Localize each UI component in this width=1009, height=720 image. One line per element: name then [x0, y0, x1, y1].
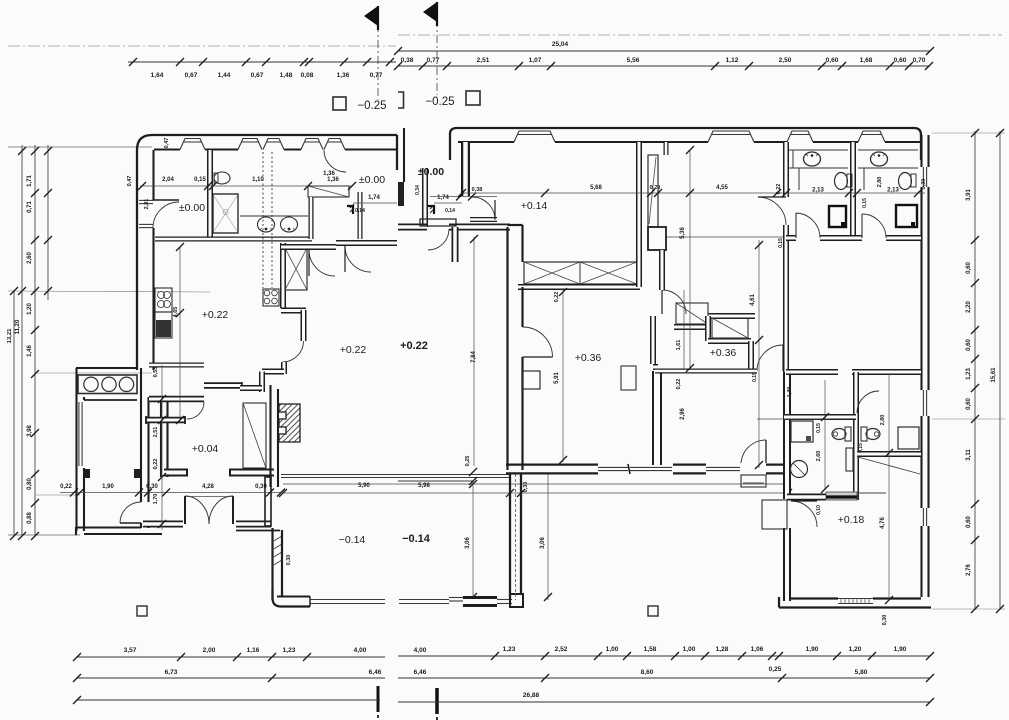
svg-text:1,20: 1,20: [27, 303, 33, 315]
svg-text:5,36: 5,36: [680, 227, 686, 239]
svg-text:5,91: 5,91: [554, 372, 560, 384]
svg-text:0,71: 0,71: [27, 201, 33, 213]
svg-text:0,30: 0,30: [255, 484, 267, 490]
svg-text:−0.14: −0.14: [339, 534, 366, 546]
svg-text:0,60: 0,60: [966, 398, 972, 410]
svg-text:+0.04: +0.04: [192, 443, 219, 455]
svg-text:8,60: 8,60: [641, 669, 654, 676]
svg-text:3,11: 3,11: [966, 449, 972, 461]
svg-text:0,25: 0,25: [465, 456, 471, 467]
svg-text:0,30: 0,30: [882, 615, 888, 626]
svg-text:0,70: 0,70: [913, 57, 926, 64]
svg-text:1,07: 1,07: [529, 57, 542, 64]
svg-text:1,00: 1,00: [683, 646, 696, 653]
svg-text:+0.36: +0.36: [575, 352, 602, 364]
svg-text:0,53: 0,53: [153, 367, 159, 378]
svg-text:0,47: 0,47: [164, 138, 170, 149]
svg-text:3,57: 3,57: [124, 647, 137, 654]
svg-text:0,22: 0,22: [676, 379, 682, 390]
svg-text:2,13: 2,13: [812, 188, 824, 194]
svg-text:0,38: 0,38: [472, 187, 483, 193]
svg-text:5,98: 5,98: [418, 483, 430, 489]
svg-text:3,98: 3,98: [27, 425, 33, 437]
svg-text:1,74: 1,74: [368, 195, 380, 201]
svg-text:1,71: 1,71: [27, 175, 33, 187]
svg-text:1,10: 1,10: [252, 177, 264, 183]
svg-text:1,06: 1,06: [751, 646, 764, 653]
svg-text:2,00: 2,00: [203, 647, 216, 654]
svg-text:1,00: 1,00: [606, 646, 619, 653]
svg-text:0,60: 0,60: [966, 262, 972, 274]
svg-text:1,90: 1,90: [806, 646, 819, 653]
svg-text:1,70: 1,70: [153, 494, 159, 505]
svg-text:1,74: 1,74: [437, 195, 449, 201]
svg-text:0,30: 0,30: [921, 179, 927, 190]
svg-text:1,68: 1,68: [860, 57, 873, 64]
svg-text:0,22: 0,22: [554, 292, 560, 303]
svg-text:2,04: 2,04: [162, 177, 174, 183]
svg-text:0,30: 0,30: [523, 482, 529, 493]
svg-text:0,15: 0,15: [862, 198, 868, 208]
svg-text:2,96: 2,96: [680, 408, 686, 420]
svg-text:3,06: 3,06: [540, 537, 546, 549]
svg-text:+0.18: +0.18: [838, 514, 865, 526]
svg-text:0,60: 0,60: [966, 339, 972, 351]
svg-text:0,15: 0,15: [858, 443, 864, 453]
svg-text:0,15: 0,15: [778, 238, 784, 248]
svg-text:1,40: 1,40: [787, 387, 793, 398]
svg-text:+0.22: +0.22: [400, 340, 428, 352]
svg-text:2,60: 2,60: [27, 252, 33, 264]
svg-text:5,80: 5,80: [855, 669, 868, 676]
svg-text:2,51: 2,51: [477, 57, 490, 64]
svg-text:0,22: 0,22: [776, 184, 782, 195]
svg-text:25,04: 25,04: [552, 41, 569, 48]
svg-text:0,67: 0,67: [251, 72, 264, 79]
svg-text:0,10: 0,10: [816, 505, 822, 515]
svg-text:3,06: 3,06: [465, 537, 471, 549]
svg-text:0,80: 0,80: [27, 478, 33, 490]
svg-text:4,76: 4,76: [880, 517, 886, 529]
svg-text:1,90: 1,90: [894, 646, 907, 653]
svg-text:0,08: 0,08: [301, 72, 314, 79]
svg-text:0,67: 0,67: [185, 72, 198, 79]
svg-text:7,84: 7,84: [471, 351, 477, 363]
svg-text:6,46: 6,46: [414, 669, 427, 676]
svg-text:4,28: 4,28: [202, 484, 214, 490]
svg-text:2,80: 2,80: [880, 415, 886, 426]
svg-text:0,15: 0,15: [752, 372, 758, 382]
svg-text:2,80: 2,80: [877, 177, 883, 188]
svg-text:0,38: 0,38: [401, 57, 414, 64]
svg-text:±0.00: ±0.00: [179, 202, 205, 214]
svg-text:2,52: 2,52: [555, 646, 568, 653]
svg-text:0,88: 0,88: [27, 512, 33, 524]
svg-text:2,51: 2,51: [153, 427, 159, 438]
svg-text:−0.25: −0.25: [357, 100, 386, 112]
svg-text:±0.00: ±0.00: [359, 174, 385, 186]
svg-text:5,68: 5,68: [590, 185, 602, 191]
svg-text:1,36: 1,36: [337, 72, 350, 79]
svg-text:2,81: 2,81: [144, 199, 150, 210]
svg-text:2,20: 2,20: [966, 301, 972, 313]
svg-text:1,36: 1,36: [323, 171, 335, 177]
svg-text:0,25: 0,25: [769, 666, 782, 673]
svg-text:1,23: 1,23: [966, 368, 972, 380]
svg-text:1,48: 1,48: [280, 72, 293, 79]
svg-text:0,60: 0,60: [894, 57, 907, 64]
svg-text:1,44: 1,44: [218, 72, 231, 79]
svg-text:0,14: 0,14: [355, 208, 365, 214]
svg-text:2,50: 2,50: [779, 57, 792, 64]
svg-text:1,23: 1,23: [283, 647, 296, 654]
svg-text:−0.25: −0.25: [425, 96, 454, 108]
svg-text:2,76: 2,76: [966, 564, 972, 576]
svg-text:1,58: 1,58: [644, 646, 657, 653]
svg-text:0,30: 0,30: [286, 555, 292, 566]
svg-text:0,30: 0,30: [146, 484, 158, 490]
svg-text:0,29: 0,29: [650, 185, 661, 191]
svg-text:±0.00: ±0.00: [418, 166, 444, 178]
svg-text:0,77: 0,77: [370, 72, 383, 79]
svg-text:0,60: 0,60: [966, 516, 972, 528]
svg-text:1,23: 1,23: [503, 646, 516, 653]
svg-text:1,61: 1,61: [676, 340, 682, 351]
svg-text:0,60: 0,60: [826, 57, 839, 64]
svg-text:15,61: 15,61: [991, 367, 997, 383]
svg-text:11,20: 11,20: [15, 319, 21, 334]
svg-text:6,46: 6,46: [369, 669, 382, 676]
svg-text:1,20: 1,20: [849, 646, 862, 653]
svg-text:0,22: 0,22: [60, 484, 72, 490]
svg-text:13,21: 13,21: [7, 328, 13, 344]
svg-text:0,15: 0,15: [816, 423, 822, 433]
svg-text:1,64: 1,64: [151, 72, 164, 79]
svg-text:4,55: 4,55: [716, 185, 728, 191]
svg-text:0,14: 0,14: [445, 208, 455, 214]
svg-text:0,22: 0,22: [153, 459, 159, 470]
svg-text:4,61: 4,61: [750, 294, 756, 306]
svg-text:4,00: 4,00: [354, 647, 367, 654]
svg-text:+0.22: +0.22: [340, 344, 367, 356]
svg-text:1,12: 1,12: [726, 57, 739, 64]
svg-text:0,47: 0,47: [127, 176, 133, 187]
svg-text:1,36: 1,36: [327, 177, 339, 183]
svg-text:0,34: 0,34: [415, 185, 421, 195]
svg-text:5,56: 5,56: [627, 57, 640, 64]
svg-text:2,60: 2,60: [816, 451, 822, 462]
svg-text:1,28: 1,28: [716, 646, 729, 653]
svg-text:1,46: 1,46: [27, 345, 33, 357]
svg-text:0,77: 0,77: [427, 57, 440, 64]
svg-text:1,90: 1,90: [102, 484, 114, 490]
svg-text:6,73: 6,73: [165, 669, 178, 676]
svg-text:+0.14: +0.14: [521, 200, 548, 212]
svg-text:1,16: 1,16: [247, 647, 260, 654]
svg-text:5,90: 5,90: [358, 483, 370, 489]
svg-text:4,00: 4,00: [414, 647, 427, 654]
svg-text:2,13: 2,13: [887, 188, 899, 194]
svg-text:26,88: 26,88: [523, 692, 540, 699]
svg-text:−0.14: −0.14: [402, 533, 431, 545]
svg-text:3,91: 3,91: [966, 189, 972, 201]
svg-text:+0.36: +0.36: [710, 347, 737, 359]
svg-text:+0.22: +0.22: [202, 309, 229, 321]
svg-text:0,15: 0,15: [194, 177, 206, 183]
